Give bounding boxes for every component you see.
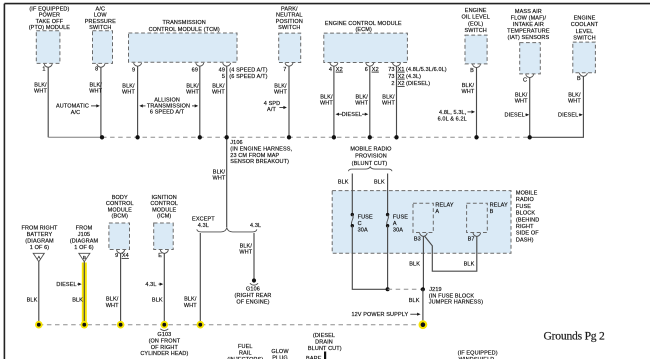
svg-text:A: A — [393, 221, 397, 227]
svg-text:2: 2 — [391, 81, 394, 87]
svg-text:TRANSMISSION: TRANSMISSION — [163, 20, 206, 26]
svg-text:CONTROL: CONTROL — [106, 201, 134, 207]
svg-text:DIESEL: DIESEL — [505, 113, 525, 119]
wire TCM pin9 BLK/WHT to ground bus — [122, 66, 138, 137]
splice branch brace below J106 (EXCEPT 4.3L / 4.3L) — [192, 217, 261, 232]
svg-text:C: C — [523, 77, 527, 83]
wire ECM pin6 BLK/WHT to ground bus — [355, 66, 370, 137]
svg-text:J106: J106 — [230, 140, 242, 146]
svg-text:CONTROL MODULE (TCM): CONTROL MODULE (TCM) — [149, 27, 220, 33]
svg-text:BATTERY: BATTERY — [27, 232, 53, 238]
wire TCM pin49/5 BLK/WHT down to splice J106 — [212, 66, 227, 227]
module A/C LOW PRESSURE SWITCH — [85, 6, 116, 72]
wire PTO pin1 BLK/WHT to ground bus — [34, 67, 48, 137]
label GLOW PLUG (clipped at bottom) — [271, 349, 289, 359]
svg-text:FLOW (MAF)/: FLOW (MAF)/ — [511, 16, 547, 22]
wire J219 BLK down to 12V supply node — [409, 289, 423, 324]
svg-text:(BCM): (BCM) — [112, 214, 129, 220]
note DIESEL arrow (MAF) — [505, 113, 530, 119]
svg-text:(BLUNT CUT): (BLUNT CUT) — [352, 161, 388, 167]
wire ECM pin73/2 BLK/WHT to ground bus — [382, 66, 396, 137]
svg-text:ENGINE CONTROL MODULE: ENGINE CONTROL MODULE — [325, 21, 402, 27]
svg-text:B3: B3 — [414, 236, 421, 242]
junction node EXCEPT 4.3L branch on G103 (highlighted) — [197, 321, 205, 329]
svg-text:1: 1 — [42, 67, 45, 73]
svg-text:WHT: WHT — [239, 250, 252, 256]
svg-text:FROM RIGHT: FROM RIGHT — [21, 226, 58, 232]
svg-text:WHT: WHT — [320, 101, 333, 107]
svg-text:B7: B7 — [468, 236, 475, 242]
svg-text:(IN ENGINE HARNESS,: (IN ENGINE HARNESS, — [230, 147, 292, 153]
svg-text:BLK: BLK — [72, 297, 83, 303]
module TCM: TRANSMISSION CONTROL MODULE — [129, 20, 268, 80]
wire below J106 BLK/WHT label — [213, 169, 226, 181]
svg-text:WHT: WHT — [274, 89, 287, 95]
svg-text:RELAY: RELAY — [490, 203, 508, 209]
svg-text:INTAKE AIR: INTAKE AIR — [513, 22, 544, 28]
wire 4.3L branch BLK/WHT down to G106 — [239, 233, 254, 279]
label MOBILE RADIO PROVISION (BLUNT CUT) with brace — [348, 147, 392, 172]
wire blunt cut BLK to fuse A — [374, 174, 388, 214]
svg-text:4 SPD: 4 SPD — [264, 101, 281, 107]
svg-text:(ON FRONT: (ON FRONT — [149, 339, 181, 345]
svg-text:COOLANT: COOLANT — [571, 22, 599, 28]
wire relay A to relay B pinB7 BLK jumper — [425, 236, 477, 271]
svg-text:73: 73 — [388, 67, 394, 73]
svg-text:WHT: WHT — [186, 89, 199, 95]
svg-text:X2: X2 — [372, 67, 379, 73]
svg-text:BODY: BODY — [112, 195, 128, 201]
svg-text:(EOL): (EOL) — [468, 21, 483, 27]
svg-text:A/C: A/C — [71, 110, 81, 116]
ground G106 (RIGHT REAR OF ENGINE) — [235, 278, 272, 305]
wire MAF pinC BLK/WHT to ground bus — [515, 78, 530, 138]
junction node 12V supply J219 on G103 (highlighted) — [419, 320, 428, 329]
svg-text:A/C: A/C — [96, 6, 106, 12]
svg-text:C: C — [358, 221, 362, 227]
wire J105 ground BLK (highlighted yellow) down to G103 bus — [72, 262, 84, 328]
wire ECM pin4 BLK/WHT to ground bus — [320, 66, 334, 137]
svg-text:CONTROL: CONTROL — [150, 201, 178, 207]
svg-text:PROVISION: PROVISION — [355, 153, 387, 159]
svg-text:(BEHIND: (BEHIND — [516, 217, 539, 223]
svg-text:BLK/: BLK/ — [355, 95, 368, 101]
relay A box — [413, 203, 454, 243]
svg-text:9: 9 — [132, 68, 135, 74]
svg-text:J105: J105 — [78, 232, 90, 238]
svg-text:30A: 30A — [393, 227, 403, 233]
svg-text:POSITION: POSITION — [276, 19, 303, 25]
svg-text:FUEL: FUEL — [238, 344, 253, 350]
svg-text:SWITCH: SWITCH — [89, 25, 111, 31]
wire BCM pin9 BLK/WHT down to G103 bus — [106, 253, 121, 324]
svg-text:G106: G106 — [246, 287, 260, 293]
svg-text:B: B — [83, 255, 86, 261]
svg-text:OF RIGHT: OF RIGHT — [151, 345, 179, 351]
svg-text:B: B — [470, 68, 474, 74]
svg-text:WHT: WHT — [355, 101, 368, 107]
svg-text:(DIAGRAM: (DIAGRAM — [25, 239, 54, 245]
svg-text:(DIESEL): (DIESEL) — [406, 81, 430, 87]
svg-text:BLK: BLK — [409, 298, 420, 304]
svg-text:6 SPEED A/T: 6 SPEED A/T — [150, 110, 185, 116]
svg-text:EXCEPT: EXCEPT — [192, 217, 215, 223]
svg-text:BLK: BLK — [464, 261, 475, 267]
svg-text:(ICM): (ICM) — [157, 214, 171, 220]
svg-text:69: 69 — [192, 68, 198, 74]
note DIESEL double arrow between ECM pins — [336, 112, 369, 118]
wire TCM pin69 BLK/WHT to ground bus — [186, 66, 200, 137]
svg-text:RADIO: RADIO — [516, 197, 535, 203]
svg-text:IGNITION: IGNITION — [151, 195, 176, 201]
svg-text:WHT: WHT — [213, 175, 226, 181]
svg-text:PARK/: PARK/ — [281, 6, 298, 12]
svg-text:FUSE: FUSE — [393, 215, 408, 221]
svg-text:(IF EQUIPPED): (IF EQUIPPED) — [458, 350, 498, 356]
note 4 SPD A/T with arrow — [264, 101, 287, 113]
ground bus G103 (dashed) — [39, 324, 423, 326]
svg-text:(DIAGRAM: (DIAGRAM — [70, 239, 99, 245]
svg-text:FUSE: FUSE — [516, 204, 531, 210]
svg-text:BLK/: BLK/ — [320, 95, 333, 101]
svg-text:30A: 30A — [358, 227, 368, 233]
label FUEL RAIL (INJECTORS) (clipped at bottom) — [227, 344, 263, 359]
junction node BCM on G103 (highlighted) — [117, 321, 125, 329]
svg-text:(4.8L/5.3L/6.0L): (4.8L/5.3L/6.0L) — [406, 67, 447, 73]
label ground G103 (ON FRONT OF RIGHT CYLINDER HEAD) — [140, 332, 188, 357]
wire relay A pinB3 BLK down to J219 — [409, 236, 423, 289]
svg-text:X1: X1 — [398, 67, 405, 73]
svg-text:Grounds Pg 2: Grounds Pg 2 — [544, 330, 606, 343]
svg-text:MASS AIR: MASS AIR — [515, 9, 542, 15]
svg-text:WHT: WHT — [34, 89, 47, 95]
module PTO: (IF EQUIPPED) POWER TAKE OFF (PTO) MODULE — [29, 6, 71, 72]
note 4.3L arrow (ICM wire) — [145, 282, 163, 288]
svg-text:(6 SPEED A/T): (6 SPEED A/T) — [229, 74, 267, 80]
svg-text:DIESEL: DIESEL — [56, 282, 76, 288]
offpage connector B FROM J105 (DIAGRAM 1 OF 6) — [70, 226, 99, 262]
svg-text:LOW: LOW — [94, 13, 108, 19]
svg-text:RAIL: RAIL — [239, 351, 252, 357]
fuse A 30A — [386, 213, 408, 233]
wire EXCEPT 4.3L branch BLK/WHT down to G103 bus — [184, 233, 200, 325]
svg-text:WHT: WHT — [382, 101, 395, 107]
svg-text:TEMPERATURE: TEMPERATURE — [507, 29, 550, 35]
svg-text:WHT: WHT — [212, 89, 225, 95]
wire blunt cut BLK to fuse C — [338, 174, 352, 214]
svg-text:4.3L: 4.3L — [250, 223, 261, 229]
junction dots on upper bus — [100, 135, 532, 139]
wire PNP pin7 BLK/WHT to ground bus — [274, 66, 289, 137]
upper ground bus wire (engine harness ground distribution) — [48, 136, 530, 138]
svg-text:BLK: BLK — [374, 180, 385, 186]
svg-text:WHT: WHT — [515, 99, 528, 105]
svg-text:AUTOMATIC: AUTOMATIC — [56, 104, 89, 110]
svg-text:J219: J219 — [429, 287, 441, 293]
svg-text:WHT: WHT — [106, 303, 119, 309]
label (DIESEL DRAIN BLUNT CUT) BARE wire — [306, 333, 342, 359]
svg-text:WHT: WHT — [184, 303, 197, 309]
svg-text:73: 73 — [388, 74, 394, 80]
svg-text:BLUNT CUT): BLUNT CUT) — [308, 346, 342, 352]
svg-text:A: A — [435, 209, 439, 215]
label (IF EQUIPPED) WINDSHIELD (clipped at bottom) — [458, 350, 498, 359]
svg-text:DASH): DASH) — [516, 237, 534, 243]
wire fuse A down to junction dot — [386, 226, 390, 292]
junction node battery A on G103 (highlighted) — [35, 321, 43, 329]
svg-text:ENGINE: ENGINE — [465, 8, 487, 14]
svg-text:DIESEL: DIESEL — [342, 112, 362, 118]
svg-text:(ECM): (ECM) — [355, 27, 372, 33]
offpage connector A FROM RIGHT BATTERY (DIAGRAM 1 OF 6) — [21, 226, 58, 262]
svg-text:SIDE OF: SIDE OF — [516, 231, 539, 237]
note ALLISION TRANSMISSION 6 SPEED A/T with arrows — [139, 98, 198, 116]
svg-text:OF ENGINE): OF ENGINE) — [236, 299, 269, 305]
svg-text:E: E — [158, 253, 162, 259]
svg-text:MODULE: MODULE — [108, 207, 132, 213]
relay B box — [467, 203, 508, 243]
svg-text:G103: G103 — [157, 332, 171, 338]
svg-text:BLOCK: BLOCK — [516, 211, 535, 217]
svg-text:9: 9 — [115, 253, 118, 259]
wire COOLANT pinB BLK/WHT down then left to ground bus — [530, 76, 584, 137]
svg-text:CYLINDER HEAD): CYLINDER HEAD) — [140, 351, 188, 357]
svg-text:BLK: BLK — [152, 297, 163, 303]
svg-text:4.3L: 4.3L — [145, 282, 156, 288]
svg-text:X2: X2 — [336, 67, 343, 73]
svg-text:SWITCH: SWITCH — [278, 25, 300, 31]
splice J106 label (IN ENGINE HARNESS, 23 CM FROM MAP SENSOR BREAKOUT) — [230, 140, 292, 165]
splice J219 (IN FUSE BLOCK JUMPER HARNESS) — [388, 287, 484, 305]
svg-text:4.8L, 5.3L,: 4.8L, 5.3L, — [439, 110, 467, 116]
module BCM: BODY CONTROL MODULE — [106, 195, 134, 259]
svg-text:SENSOR BREAKOUT): SENSOR BREAKOUT) — [230, 159, 289, 165]
svg-text:(IF EQUIPPED): (IF EQUIPPED) — [29, 6, 69, 12]
wire EOL pinB BLK/WHT to ground bus — [461, 68, 476, 138]
svg-text:JUMPER HARNESS): JUMPER HARNESS) — [429, 299, 483, 305]
svg-text:B: B — [490, 209, 494, 215]
fuse C 30A — [351, 213, 373, 233]
svg-text:BLK: BLK — [409, 261, 420, 267]
svg-text:5: 5 — [222, 74, 225, 80]
module ICM: IGNITION CONTROL MODULE — [150, 195, 178, 259]
svg-text:49: 49 — [219, 67, 225, 73]
svg-text:TAKE OFF: TAKE OFF — [36, 19, 64, 25]
svg-text:OIL LEVEL: OIL LEVEL — [461, 15, 489, 21]
module PNP: PARK/NEUTRAL POSITION SWITCH — [276, 6, 303, 73]
svg-text:LEVEL: LEVEL — [576, 29, 594, 35]
svg-text:23 CM FROM MAP: 23 CM FROM MAP — [230, 153, 279, 159]
label MOBILE RADIO FUSE BLOCK (BEHIND RIGHT SIDE OF DASH) — [516, 191, 539, 244]
svg-text:WHT: WHT — [122, 89, 135, 95]
svg-text:(IAT) SENSORS: (IAT) SENSORS — [508, 35, 550, 41]
note AUTOMATIC A/C with arrow — [56, 104, 100, 116]
note DIESEL arrow (J105 wire) — [56, 282, 81, 288]
svg-text:FUSE: FUSE — [358, 215, 373, 221]
svg-text:A/T: A/T — [267, 107, 276, 113]
svg-text:4.3L: 4.3L — [198, 223, 209, 229]
page reference Grounds Pg 2 — [544, 330, 606, 343]
note 12V POWER SUPPLY with arrow — [351, 312, 420, 318]
wire ICM pinE BLK down to G103 ground — [152, 253, 164, 324]
junction node J105 B on G103 (highlighted) — [81, 321, 89, 329]
svg-text:NEUTRAL: NEUTRAL — [276, 13, 303, 19]
svg-text:BLK/: BLK/ — [240, 243, 253, 249]
wire fuse C to junction (bend right) — [352, 226, 387, 290]
svg-text:POWER: POWER — [39, 13, 60, 19]
fuse block box MOBILE RADIO FUSE BLOCK — [332, 191, 511, 254]
svg-text:X2: X2 — [398, 81, 405, 87]
svg-text:BLK/: BLK/ — [382, 95, 395, 101]
svg-text:WHT: WHT — [461, 89, 474, 95]
junction node ICM / G103 ground point (highlighted) — [160, 321, 168, 331]
svg-text:WHT: WHT — [568, 99, 581, 105]
svg-text:BLK/: BLK/ — [184, 297, 197, 303]
module ENGINE COOLANT LEVEL SWITCH — [571, 15, 599, 82]
svg-text:SWITCH: SWITCH — [464, 28, 486, 34]
svg-text:ENGINE: ENGINE — [574, 15, 596, 21]
svg-text:RELAY: RELAY — [435, 203, 453, 209]
svg-text:WHT: WHT — [89, 89, 102, 95]
svg-text:BLK: BLK — [338, 180, 349, 186]
svg-text:X4: X4 — [122, 253, 129, 259]
svg-text:12V POWER SUPPLY: 12V POWER SUPPLY — [351, 312, 408, 318]
svg-text:BLK: BLK — [27, 297, 38, 303]
svg-text:RIGHT: RIGHT — [516, 224, 534, 230]
svg-text:(RIGHT REAR: (RIGHT REAR — [235, 293, 272, 299]
svg-text:(PTO) MODULE: (PTO) MODULE — [29, 25, 71, 31]
svg-text:SWITCH: SWITCH — [573, 36, 595, 42]
svg-text:6.0L & 6.2L: 6.0L & 6.2L — [438, 116, 467, 122]
svg-text:(4 SPEED A/T): (4 SPEED A/T) — [229, 67, 267, 73]
svg-text:(4.3L): (4.3L) — [406, 74, 421, 80]
svg-text:1 OF 6): 1 OF 6) — [30, 245, 50, 251]
note DIESEL arrow (coolant) — [558, 113, 583, 119]
wire battery ground BLK down to G103 bus — [27, 262, 39, 325]
module MAF/IAT: MASS AIR FLOW / INTAKE AIR TEMPERATURE SENSORS — [507, 9, 550, 83]
svg-text:X2: X2 — [398, 74, 405, 80]
module ECM: ENGINE CONTROL MODULE — [324, 21, 447, 87]
svg-text:7: 7 — [283, 67, 286, 73]
svg-text:MODULE: MODULE — [152, 207, 176, 213]
svg-text:GLOW: GLOW — [271, 349, 289, 355]
svg-text:BLK/: BLK/ — [106, 297, 119, 303]
wire A/C switch pin8 BLK/WHT to ground bus — [89, 67, 102, 137]
note 4.8L, 5.3L, 6.0L &amp; 6.2L with arrow — [438, 110, 475, 122]
svg-text:1 OF 6): 1 OF 6) — [74, 245, 94, 251]
svg-text:(DIESEL: (DIESEL — [313, 333, 335, 339]
svg-text:B: B — [577, 76, 581, 82]
svg-text:PRESSURE: PRESSURE — [85, 19, 116, 25]
svg-text:DRAIN: DRAIN — [315, 340, 333, 346]
svg-text:6: 6 — [365, 67, 368, 73]
svg-text:FROM: FROM — [76, 226, 93, 232]
svg-text:4: 4 — [329, 67, 332, 73]
svg-text:8: 8 — [95, 67, 98, 73]
svg-text:MOBILE: MOBILE — [516, 191, 538, 197]
module EOL: ENGINE OIL LEVEL SWITCH — [461, 8, 489, 74]
svg-text:DIESEL: DIESEL — [558, 113, 578, 119]
svg-text:MOBILE RADIO: MOBILE RADIO — [350, 147, 392, 153]
